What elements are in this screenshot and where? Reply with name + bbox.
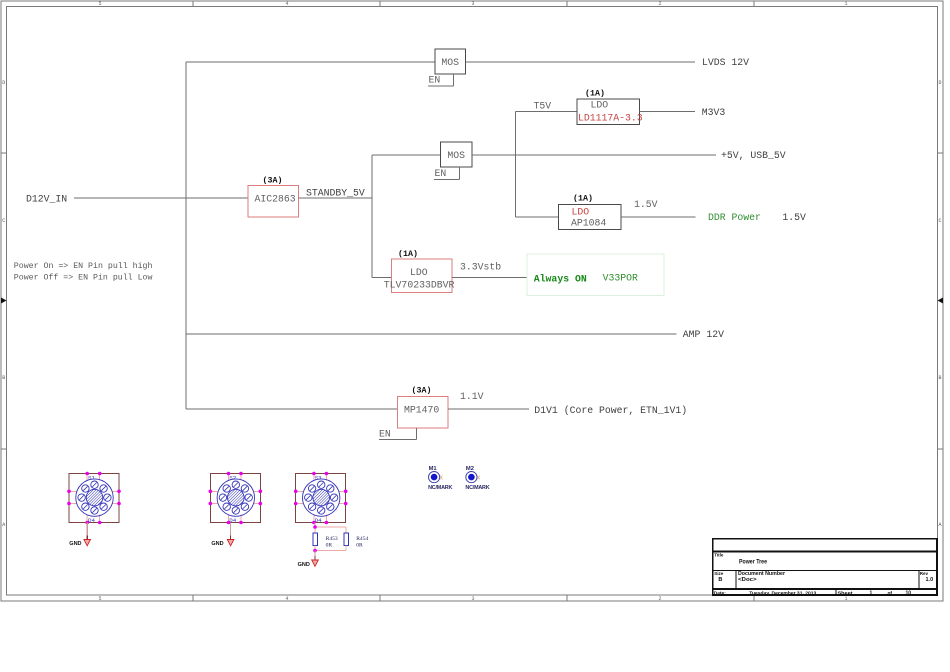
svg-text:1: 1 [844,596,847,602]
svg-text:0R: 0R [326,543,333,549]
svg-text:5: 5 [98,1,101,7]
svg-text:MP1470: MP1470 [404,404,439,415]
svg-text:(3A): (3A) [263,175,283,185]
svg-text:STANDBY_5V: STANDBY_5V [306,187,365,198]
svg-text:D4: D4 [88,517,95,524]
svg-text:(3A): (3A) [412,385,432,395]
svg-text:NC/MARK: NC/MARK [465,485,489,491]
svg-text:<Doc>: <Doc> [738,577,757,583]
svg-text:5: 5 [98,596,101,602]
svg-text:C: C [938,218,941,224]
svg-text:S1: S1 [88,474,95,481]
svg-text:M1: M1 [429,466,438,472]
svg-text:4: 4 [285,1,288,7]
svg-text:AP1084: AP1084 [571,218,606,229]
svg-text:Sheet: Sheet [838,591,853,597]
svg-text:Title: Title [714,552,724,557]
svg-text:1: 1 [844,1,847,7]
svg-text:NC/MARK: NC/MARK [428,485,452,491]
svg-text:1.1V: 1.1V [460,391,484,402]
svg-text:D12V_IN: D12V_IN [26,194,67,205]
svg-text:S3: S3 [315,474,322,481]
svg-text:1.5V: 1.5V [634,199,658,210]
svg-text:LVDS 12V: LVDS 12V [702,57,749,68]
svg-text:LDO: LDO [591,99,609,110]
svg-text:A: A [2,522,5,528]
svg-text:1.5V: 1.5V [782,212,806,223]
svg-text:D4: D4 [315,517,322,524]
svg-text:0R: 0R [356,543,363,549]
svg-text:M2: M2 [466,466,474,472]
svg-text:AIC2863: AIC2863 [255,194,296,205]
svg-text:MOS: MOS [447,150,465,161]
svg-text:2: 2 [658,1,661,7]
svg-text:Tuesday, December 31, 2013: Tuesday, December 31, 2013 [749,591,816,597]
svg-text:of: of [888,591,893,597]
svg-text:AMP 12V: AMP 12V [683,329,724,340]
svg-text:3.3Vstb: 3.3Vstb [460,262,501,273]
svg-text:D1V1 (Core Power, ETN_1V1): D1V1 (Core Power, ETN_1V1) [534,405,687,416]
svg-text:LDO: LDO [410,267,428,278]
svg-text:+5V, USB_5V: +5V, USB_5V [721,150,786,161]
svg-text:1: 1 [870,591,873,597]
svg-text:Power On => EN Pin pull high: Power On => EN Pin pull high [14,261,153,271]
svg-text:2: 2 [658,596,661,602]
svg-text:B: B [2,375,5,381]
svg-text:V33POR: V33POR [603,273,638,284]
svg-text:Power Off => EN Pin pull Low: Power Off => EN Pin pull Low [14,273,153,283]
svg-text:10: 10 [906,591,912,597]
svg-text:MOS: MOS [441,57,459,68]
svg-text:LD1117A-3.3: LD1117A-3.3 [578,113,643,124]
svg-text:R454: R454 [356,536,368,542]
svg-text:Always ON: Always ON [534,273,587,284]
svg-text:GND: GND [211,541,223,547]
svg-text:R453: R453 [326,536,338,542]
svg-text:(1A): (1A) [573,194,593,204]
svg-text:GND: GND [69,541,81,547]
svg-text:4: 4 [285,596,288,602]
svg-text:DDR Power: DDR Power [708,212,761,223]
svg-text:3: 3 [471,1,474,7]
svg-text:1.0: 1.0 [926,577,934,583]
svg-text:3: 3 [471,596,474,602]
svg-text:Date:: Date: [714,591,726,597]
svg-text:B: B [938,375,941,381]
svg-text:LDO: LDO [572,207,590,218]
svg-text:TLV70233DBVR: TLV70233DBVR [384,280,455,291]
svg-text:C: C [2,218,5,224]
svg-text:T5V: T5V [534,101,552,112]
svg-text:(1A): (1A) [585,88,605,98]
svg-text:B: B [718,577,722,583]
svg-text:S2: S2 [229,474,236,481]
svg-text:GND: GND [298,562,310,568]
svg-text:EN: EN [429,75,441,86]
svg-text:(1A): (1A) [398,249,418,259]
svg-text:D: D [938,80,941,86]
svg-text:Power Tree: Power Tree [739,559,767,566]
svg-text:EN: EN [379,429,391,440]
svg-text:M3V3: M3V3 [702,107,726,118]
svg-text:Size: Size [714,571,724,576]
svg-text:Rev: Rev [920,571,929,576]
svg-text:D: D [2,80,5,86]
svg-text:A: A [938,522,941,528]
svg-text:EN: EN [435,168,447,179]
